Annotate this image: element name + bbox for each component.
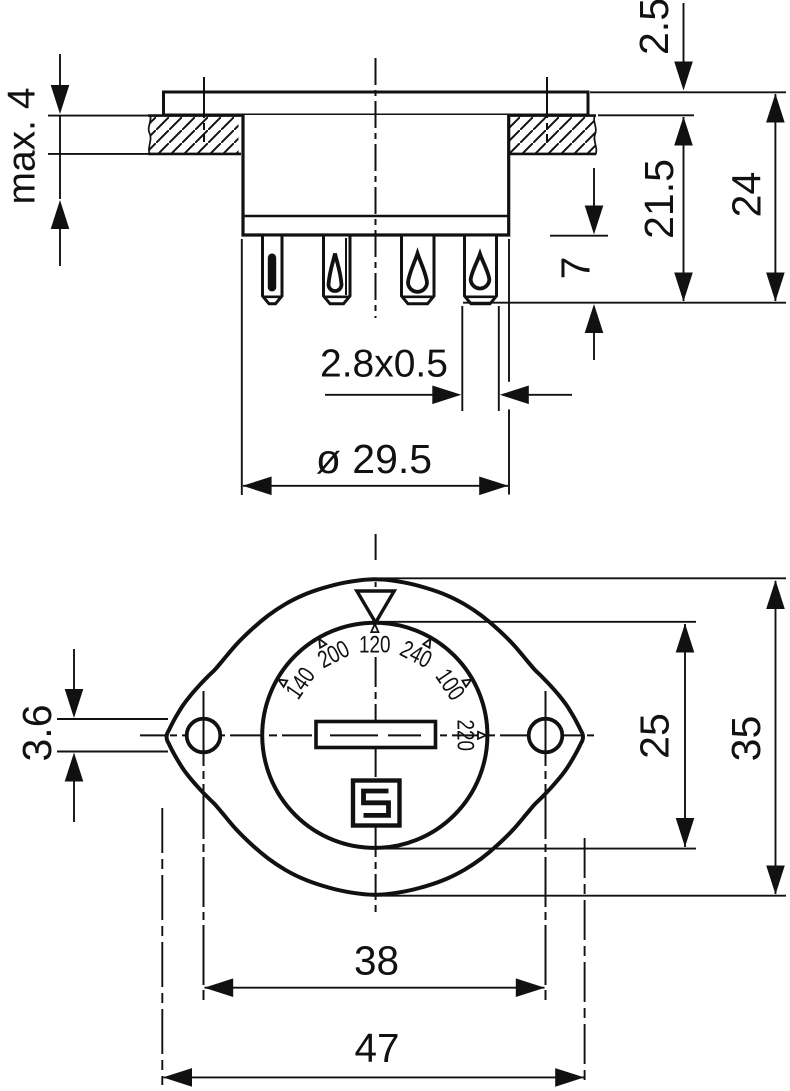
svg-text:35: 35 — [723, 716, 769, 762]
svg-text:7: 7 — [552, 257, 598, 280]
mounting hole right — [529, 719, 563, 753]
hole centerline left — [203, 691, 205, 1000]
Schurter logo — [353, 781, 400, 826]
svg-text:2.8x0.5: 2.8x0.5 — [320, 343, 448, 386]
actuator slot — [316, 722, 436, 748]
svg-text:21.5: 21.5 — [636, 159, 682, 239]
pin 4 — [465, 237, 497, 304]
centerline main (side view) — [375, 58, 377, 318]
centerline hole right (side view) — [546, 77, 548, 142]
extension line panel top right — [598, 114, 694, 116]
dimension 24 — [766, 94, 785, 123]
svg-text:2.5: 2.5 — [631, 0, 677, 55]
svg-text:24: 24 — [723, 172, 769, 218]
extension lines panel left — [48, 115, 148, 117]
dimension 38 — [204, 978, 233, 997]
dimension 2.5 — [683, 3, 685, 62]
dimension 35 — [380, 577, 786, 579]
panel cross-section left (hatched) — [149, 115, 239, 155]
vertical centerline (front view) — [375, 534, 377, 589]
svg-text:ø 29.5: ø 29.5 — [316, 436, 432, 482]
dimension 7 — [593, 168, 595, 206]
dimension max. 4 — [59, 54, 61, 86]
index triangle marker — [357, 591, 394, 623]
svg-text:max. 4: max. 4 — [1, 87, 44, 204]
flange tip extension left — [161, 808, 163, 1085]
svg-text:47: 47 — [354, 1025, 399, 1071]
dimension 21.5 — [674, 117, 693, 146]
dial tick marks — [277, 677, 288, 687]
svg-text:3.6: 3.6 — [14, 705, 60, 762]
flange tip extension right — [584, 838, 586, 1085]
pin 3 — [402, 237, 435, 304]
flange (side view) — [164, 92, 589, 115]
mounting hole left — [187, 719, 221, 753]
extension line pin bottom — [463, 302, 786, 304]
dimension 2.8x0.5 — [461, 306, 463, 411]
centerline hole left (side view) — [203, 77, 205, 142]
mounting flange outline (front view) — [167, 579, 583, 895]
pin 1 — [263, 237, 283, 304]
horizontal centerline (front view) — [140, 734, 598, 736]
svg-text:120: 120 — [359, 632, 391, 659]
dimension 25 — [380, 621, 696, 623]
extension line body bottom right — [550, 235, 608, 237]
extension line flange top right — [590, 91, 786, 93]
panel cross-section right (hatched) — [510, 115, 596, 155]
svg-text:25: 25 — [631, 713, 677, 759]
pin 2 — [324, 237, 351, 304]
hole centerline right — [545, 691, 547, 1000]
svg-text:38: 38 — [354, 938, 399, 984]
selector face circle — [262, 623, 487, 848]
svg-text:220: 220 — [452, 720, 479, 752]
dimension dia 29.5 — [241, 239, 243, 495]
dimension 3.6 — [57, 718, 168, 720]
dimension 47 — [163, 1068, 192, 1087]
connector body (side view) — [243, 115, 509, 235]
